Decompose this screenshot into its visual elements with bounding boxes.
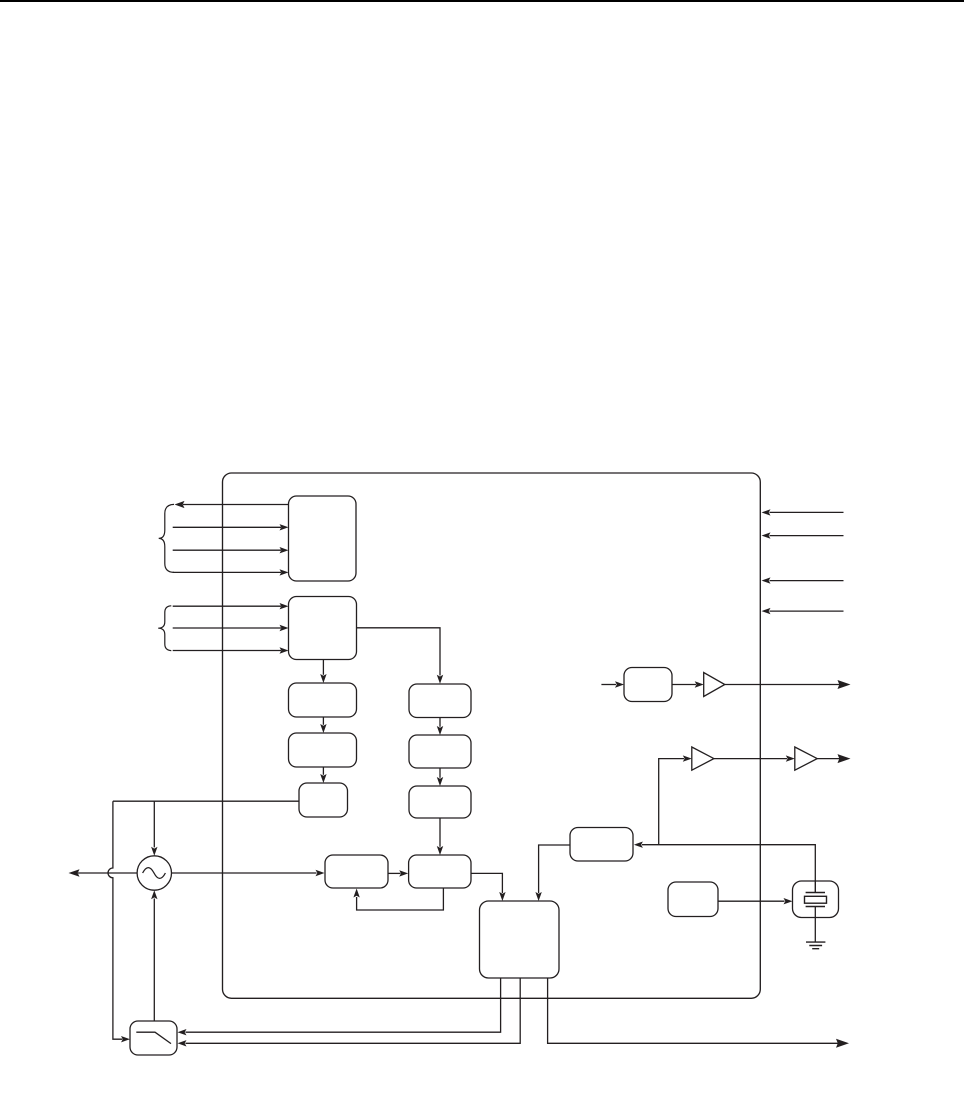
wire VCO output to mixer A bbox=[172, 870, 325, 876]
mixer block B bbox=[409, 855, 471, 888]
wire right input 2 bbox=[762, 532, 844, 538]
wire latch to N counter bbox=[357, 628, 444, 684]
crystal Y1 bbox=[793, 881, 839, 918]
wire to VCO top bbox=[151, 801, 157, 856]
wire right input 4 bbox=[762, 608, 844, 614]
wire crystal net to buffer 2 bbox=[659, 755, 692, 844]
wire enable in bbox=[173, 569, 289, 575]
wire mixer A to mixer B bbox=[388, 870, 408, 876]
oscillator driver block bbox=[668, 882, 718, 917]
wire ref divider chain 2 bbox=[320, 767, 326, 783]
brace control inputs bbox=[158, 606, 171, 651]
wire prescaler out 3 external bbox=[548, 978, 849, 1047]
wire VCO output left bbox=[69, 869, 138, 877]
wire prescaler out 2 to filter bbox=[178, 978, 521, 1046]
divider block 2 bbox=[289, 733, 357, 767]
prescaler block bbox=[480, 901, 560, 978]
mixer block A bbox=[325, 855, 388, 888]
wire ref divider chain 1 bbox=[320, 717, 326, 733]
wire crystal to ground bbox=[814, 907, 816, 943]
wire data out bbox=[175, 501, 289, 508]
wire data in bbox=[173, 524, 289, 530]
buffer amp 3 bbox=[795, 747, 817, 770]
latch block bbox=[289, 597, 357, 660]
brace serial-interface inputs bbox=[159, 504, 174, 572]
wire control in 2 bbox=[173, 625, 289, 631]
low-pass filter symbol bbox=[136, 1032, 171, 1043]
ground bbox=[806, 942, 825, 949]
wire N counter to mixer B bbox=[437, 818, 443, 855]
crystal symbol bbox=[805, 881, 827, 907]
wire control in 1 bbox=[173, 603, 289, 609]
wire right input 3 bbox=[762, 577, 844, 583]
wire divider out to buffer 1 bbox=[672, 681, 704, 687]
wire clock in bbox=[173, 547, 289, 553]
buffer amp 1 bbox=[704, 673, 725, 697]
wire input to divider out bbox=[601, 681, 624, 687]
VCO oscillator bbox=[137, 856, 171, 890]
wire to loop filter input bbox=[108, 801, 130, 1042]
control logic block bbox=[570, 828, 633, 862]
prescaler control block bbox=[409, 786, 471, 818]
shift register block bbox=[289, 496, 357, 581]
wire control in 3 bbox=[173, 647, 289, 653]
wire N counter chain 2 bbox=[437, 768, 443, 786]
wire driver to crystal bbox=[718, 898, 793, 904]
wire latch to ref divider bbox=[320, 660, 326, 684]
wire loop filter to VCO bbox=[151, 890, 157, 1021]
reference divider block bbox=[289, 683, 357, 717]
IC outline U1 bbox=[223, 473, 761, 998]
wire phase detector output bbox=[113, 800, 299, 802]
page top rule bbox=[0, 0, 964, 2]
wire mixer B to prescaler bbox=[471, 873, 506, 901]
wire right input 1 bbox=[762, 509, 844, 515]
A counter block bbox=[409, 735, 471, 768]
wire prescaler out 1 to filter bbox=[178, 978, 501, 1035]
loop filter bbox=[130, 1021, 177, 1055]
wire crystal to control logic bbox=[634, 842, 815, 882]
wire buffer 3 output bbox=[817, 754, 850, 763]
wire control logic to prescaler bbox=[535, 845, 570, 901]
buffer amp 2 bbox=[692, 747, 714, 770]
divider block out bbox=[624, 668, 672, 702]
wire buffer 2 to buffer 3 bbox=[714, 755, 795, 761]
N counter block bbox=[409, 684, 471, 718]
phase detector block bbox=[299, 783, 348, 817]
wire mixer feedback bbox=[353, 889, 443, 911]
wire N counter chain 1 bbox=[437, 718, 443, 736]
wire buffer 1 output bbox=[725, 680, 851, 689]
